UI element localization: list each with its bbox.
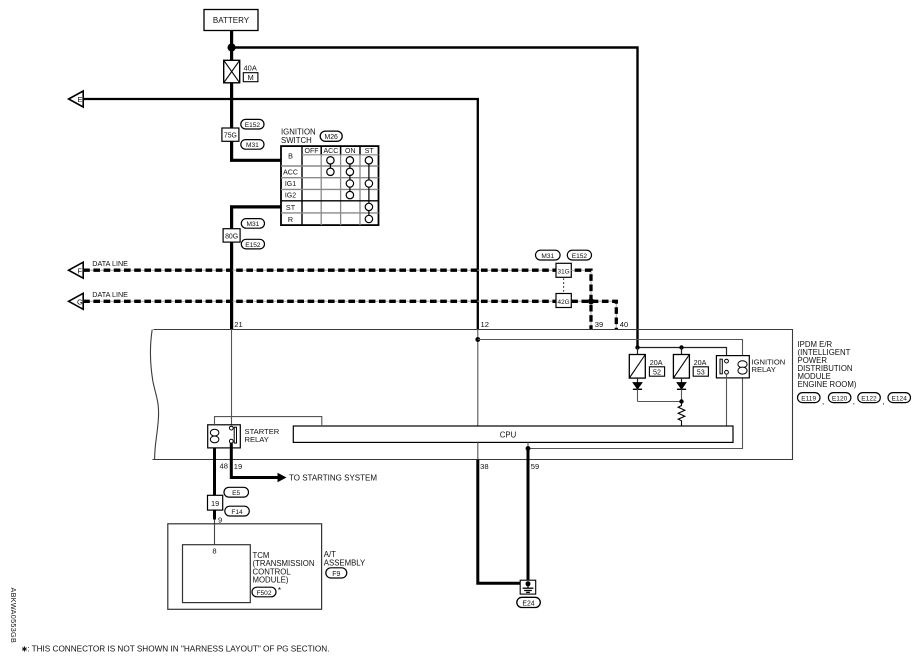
wire battery to fuse (230, 31, 233, 61)
wire relay contact to CPU (726, 374, 728, 426)
connector oval E122 (858, 393, 885, 406)
svg-text:ST: ST (286, 203, 296, 212)
ground E24 (520, 580, 536, 594)
svg-text:E120: E120 (832, 396, 848, 403)
svg-text:,: , (882, 397, 884, 406)
svg-text:*: * (278, 585, 282, 595)
dotted tie 31G to 42G (563, 279, 565, 294)
svg-text:E: E (77, 95, 82, 104)
node feed fuse 52 (635, 345, 639, 349)
connector oval M31 at 31G (536, 250, 561, 260)
wire fuse feed (638, 348, 727, 360)
svg-text:9: 9 (218, 515, 222, 524)
svg-text:ASSEMBLY: ASSEMBLY (324, 559, 366, 568)
svg-text:F502: F502 (256, 590, 271, 597)
connector 75G (222, 128, 239, 141)
svg-text:59: 59 (531, 462, 539, 471)
connector 31G (556, 263, 571, 277)
label TCM (253, 551, 315, 585)
ignition switch M26 table (281, 146, 379, 225)
wire data line F to 31G (83, 269, 556, 271)
switch contact chain ACC column (327, 157, 334, 176)
svg-text:M31: M31 (246, 142, 259, 149)
svg-text:75G: 75G (224, 133, 237, 140)
TCM inner box (183, 545, 251, 603)
svg-text:,: , (853, 397, 855, 406)
svg-text:DATA LINE: DATA LINE (92, 259, 128, 268)
connector oval E120 (828, 393, 855, 406)
fuse 40A M (224, 60, 258, 83)
node ground bus (526, 446, 531, 451)
svg-text:E24: E24 (522, 600, 534, 607)
svg-text:BATTERY: BATTERY (213, 16, 250, 25)
svg-text:F14: F14 (231, 509, 243, 516)
diode D53 (677, 378, 686, 401)
node diode join (679, 399, 683, 403)
starter relay (208, 425, 241, 448)
svg-text:E122: E122 (861, 396, 877, 403)
svg-text:G: G (77, 297, 83, 306)
connector 80G (223, 229, 240, 242)
connector oval M26 (320, 131, 342, 141)
wire pin 19 to starting system (231, 443, 277, 477)
node battery junction (228, 43, 236, 51)
svg-text:M26: M26 (324, 134, 338, 141)
svg-text:DATA LINE: DATA LINE (92, 290, 128, 299)
svg-text:F: F (77, 266, 82, 275)
connector oval M31 (241, 140, 264, 150)
wire pin 59 stub (527, 442, 529, 448)
svg-text:E152: E152 (572, 253, 588, 260)
resistor R1 (678, 402, 685, 427)
svg-text:38: 38 (480, 462, 488, 471)
TCM A/T assembly box (168, 524, 322, 610)
svg-text:21: 21 (234, 320, 242, 329)
connector oval E152 at 80G (241, 239, 264, 249)
CPU box (293, 426, 733, 442)
connector oval F14 (225, 506, 250, 516)
connector 19 (208, 495, 223, 510)
svg-text:40: 40 (620, 320, 628, 329)
svg-text:MODULE): MODULE) (253, 576, 289, 585)
svg-text:52: 52 (653, 367, 661, 376)
svg-text:IG2: IG2 (285, 193, 296, 200)
wire pin 48 to connector 19 (213, 448, 216, 495)
connector oval E152 at 31G (567, 250, 591, 260)
wire data line G to 42G (83, 300, 556, 302)
svg-text:ON: ON (345, 148, 356, 155)
node dashed junction (588, 298, 594, 304)
wire pin 12 to CPU (477, 329, 479, 426)
wire pin 59 to ground (527, 449, 530, 584)
switch contact chain ON column (346, 157, 353, 199)
svg-text:ST: ST (365, 148, 375, 155)
svg-text:CPU: CPU (500, 431, 517, 440)
svg-text:19: 19 (211, 499, 219, 508)
wire 42G to IPDM pin 40 (571, 301, 616, 329)
wire pin 38 to ground (478, 460, 521, 584)
svg-text:B: B (288, 152, 293, 161)
label ignition switch (281, 128, 316, 146)
svg-text:RELAY: RELAY (245, 435, 269, 444)
connector oval F502 (252, 585, 282, 597)
svg-text:SWITCH: SWITCH (281, 136, 312, 145)
wire pin 38 to IPDM edge (477, 442, 479, 459)
label starter relay (245, 427, 280, 444)
wire pin 21 to starter relay (231, 329, 233, 426)
svg-text:12: 12 (481, 320, 489, 329)
ignition relay (716, 356, 749, 378)
svg-text:E152: E152 (245, 242, 261, 249)
svg-text:20A: 20A (650, 358, 663, 367)
svg-text:M31: M31 (246, 221, 259, 228)
connector oval E24 (517, 597, 541, 607)
svg-text:31G: 31G (558, 269, 570, 276)
svg-text:42G: 42G (558, 299, 570, 306)
svg-text:F9: F9 (332, 571, 340, 578)
arrow E (69, 91, 84, 107)
arrow F (69, 262, 84, 278)
label A/T assembly (324, 550, 366, 567)
arrow G (69, 293, 84, 309)
wire diode join (638, 401, 682, 403)
fuse 52 20A (629, 348, 664, 379)
wire ignition coil to ground bus (528, 374, 743, 448)
node feed fuse 53 (679, 345, 683, 349)
battery (204, 10, 258, 31)
wire connector 19 to TCM pin 8 (213, 510, 216, 519)
svg-text:RELAY: RELAY (752, 365, 776, 374)
wire 75G to switch terminal B (232, 141, 281, 160)
svg-text:IG1: IG1 (285, 181, 296, 188)
svg-text:M31: M31 (541, 253, 554, 260)
connector oval E119 (798, 393, 825, 406)
svg-text:39: 39 (595, 320, 603, 329)
svg-text:E119: E119 (801, 396, 816, 403)
arrow to starting system (278, 473, 287, 482)
svg-text:ENGINE ROOM): ENGINE ROOM) (798, 380, 857, 389)
svg-text:R: R (288, 215, 293, 224)
svg-text:E124: E124 (891, 396, 907, 403)
svg-text:40A: 40A (244, 64, 257, 73)
label ignition relay (752, 358, 786, 374)
IPDM E/R enclosure (150, 330, 792, 460)
svg-text:53: 53 (697, 367, 705, 376)
connector oval F9 (326, 568, 347, 578)
svg-text:,: , (822, 397, 824, 406)
svg-text:19: 19 (234, 462, 242, 471)
wire 31G to IPDM pin 39 (571, 270, 591, 329)
svg-text:M: M (247, 73, 253, 82)
wire starter coil to CPU (215, 417, 322, 426)
connector oval M31 at 80G (241, 219, 264, 229)
connector oval E5 (224, 487, 249, 497)
fuse 53 20A (673, 348, 708, 379)
svg-text:ACC: ACC (283, 170, 298, 177)
svg-text:ABKWA0553GB: ABKWA0553GB (9, 588, 18, 644)
label IPDM E/R (798, 340, 857, 389)
node pin 12 branch (475, 337, 480, 342)
connector oval E152 (241, 119, 264, 129)
svg-text:8: 8 (212, 546, 216, 555)
wire battery branch to IPDM feed (232, 48, 638, 348)
svg-text:20A: 20A (694, 358, 707, 367)
connector oval E124 (888, 393, 911, 403)
svg-text:OFF: OFF (305, 148, 319, 155)
switch contact chain ST column (365, 157, 372, 223)
wire switch ST to 80G (232, 207, 281, 229)
wire E to IPDM pin 12 (83, 99, 478, 329)
svg-text:48: 48 (220, 461, 228, 470)
wire 80G to IPDM pin 21 (230, 242, 233, 329)
svg-text:TO STARTING SYSTEM: TO STARTING SYSTEM (289, 473, 377, 482)
wire ignition coil bus (478, 340, 743, 361)
connector 42G (556, 294, 571, 308)
svg-text:E5: E5 (232, 490, 240, 497)
svg-text:✱: THIS CONNECTOR IS NOT SHOWN: ✱: THIS CONNECTOR IS NOT SHOWN IN "HARNE… (22, 645, 330, 654)
svg-text:ACC: ACC (324, 148, 339, 155)
svg-text:E152: E152 (245, 122, 261, 129)
svg-text:80G: 80G (225, 234, 238, 241)
wire fuse to 75G (230, 83, 233, 128)
diode D52 (633, 378, 642, 401)
